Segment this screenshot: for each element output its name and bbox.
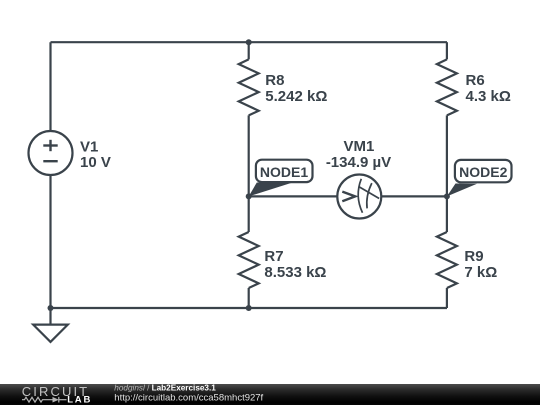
node NODE1 flag box	[256, 160, 313, 182]
node NODE2 flag box	[455, 160, 512, 182]
svg-text:NODE1: NODE1	[260, 164, 308, 180]
wire R6 top stub	[446, 42, 448, 59]
wire R7 bottom stub	[248, 288, 250, 308]
wire top rail	[51, 41, 448, 43]
voltage source V1	[29, 131, 73, 175]
svg-text:R8: R8	[265, 72, 284, 89]
wire R9 top stub	[446, 196, 448, 232]
wire R9 bottom stub	[446, 288, 448, 308]
wire R8 bottom stub	[248, 115, 250, 196]
footer bar	[0, 384, 540, 405]
resistor R9	[437, 232, 457, 288]
svg-text:R7: R7	[264, 248, 283, 265]
ground	[33, 325, 68, 342]
svg-text:R6: R6	[466, 72, 485, 89]
svg-text:hodginsl / Lab2Exercise3.1: hodginsl / Lab2Exercise3.1	[114, 384, 216, 392]
resistor R8	[239, 59, 259, 115]
svg-text:VM1: VM1	[343, 138, 374, 155]
svg-text:R9: R9	[464, 248, 483, 265]
wire bottom rail	[51, 307, 448, 309]
resistor R7	[239, 232, 259, 288]
logo resistor-diode squiggle	[22, 397, 67, 403]
node NODE2 flag tail	[447, 184, 477, 197]
node NODE1 flag tail	[249, 183, 291, 197]
junction node bottom left	[48, 305, 54, 311]
junction node bottom	[246, 305, 252, 311]
svg-text:-134.9 µV: -134.9 µV	[326, 154, 391, 171]
wire middle rail	[249, 195, 447, 197]
wire left rail	[49, 42, 51, 308]
junction node top	[246, 39, 252, 45]
wire R7 top stub	[248, 196, 250, 232]
svg-text:NODE2: NODE2	[459, 164, 507, 180]
node B (NODE2 junction)	[444, 193, 450, 199]
resistor R6	[437, 59, 457, 115]
svg-text:10 V: 10 V	[80, 154, 111, 171]
wire R8 top stub	[248, 42, 250, 59]
svg-text:8.533 kΩ: 8.533 kΩ	[264, 264, 326, 281]
voltmeter VM1	[337, 175, 381, 219]
node A (NODE1 junction)	[246, 193, 252, 199]
svg-text:7 kΩ: 7 kΩ	[464, 264, 497, 281]
wire R6 bottom stub	[446, 115, 448, 196]
svg-text:4.3 kΩ: 4.3 kΩ	[466, 88, 511, 105]
svg-text:http://circuitlab.com/cca58mhc: http://circuitlab.com/cca58mhct927f	[114, 393, 263, 404]
svg-text:5.242 kΩ: 5.242 kΩ	[265, 88, 327, 105]
wire ground stub	[49, 308, 51, 324]
